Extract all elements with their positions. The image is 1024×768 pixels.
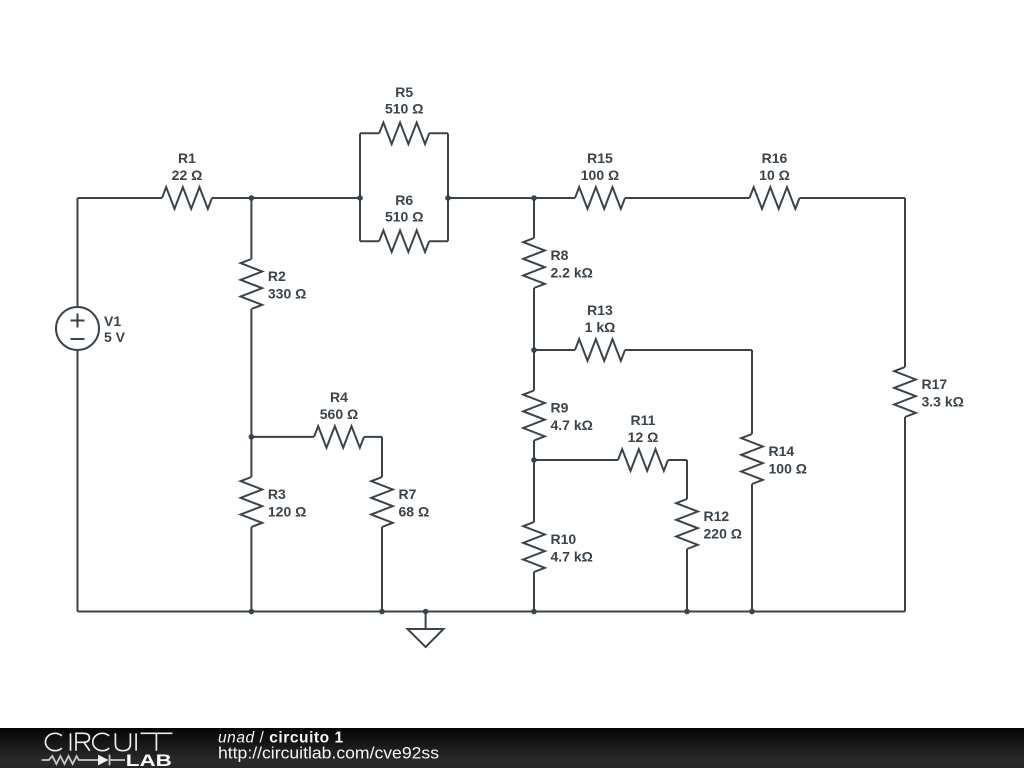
- node box right (448,198): [445, 195, 451, 201]
- svg-text:510 Ω: 510 Ω: [385, 100, 423, 116]
- wire R12 bottom lead: [686, 549, 688, 612]
- svg-text:220 Ω: 220 Ω: [704, 526, 742, 542]
- wire R2 top lead: [250, 198, 252, 259]
- wire right rail lower: [904, 417, 906, 612]
- wire R15 to R16: [625, 197, 750, 199]
- resistor R15: [575, 150, 625, 209]
- svg-text:10 Ω: 10 Ω: [759, 167, 790, 183]
- node bottom R12 (687,611): [684, 609, 690, 615]
- node bottom R3 (251,611): [249, 609, 255, 615]
- svg-text:R16: R16: [762, 150, 788, 166]
- svg-text:100 Ω: 100 Ω: [769, 461, 807, 477]
- node R4 left (251,437): [249, 434, 255, 440]
- resistor R5: [379, 84, 429, 144]
- svg-text:R14: R14: [769, 443, 795, 459]
- resistor R8: [523, 238, 593, 288]
- wire parallel box right vertical: [447, 133, 449, 241]
- wire R5 leads: [360, 132, 448, 134]
- wire R13 right to corner: [625, 349, 752, 351]
- wire mid column R8 lead top: [533, 198, 535, 238]
- node mid top (534,198): [531, 195, 537, 201]
- node A (251,198): [249, 195, 255, 201]
- wire parallel box left vertical: [359, 133, 361, 241]
- wire R16 to right corner: [800, 197, 906, 199]
- wire R11 right to corner: [668, 459, 687, 461]
- wire R3 top lead: [250, 437, 252, 477]
- svg-text:R12: R12: [704, 508, 730, 524]
- resistor R12: [676, 499, 742, 549]
- wire R7 bottom lead: [381, 527, 383, 612]
- svg-text:R17: R17: [922, 376, 948, 392]
- wire R1 to node A: [212, 197, 360, 199]
- svg-text:R8: R8: [551, 247, 569, 263]
- svg-text:68 Ω: 68 Ω: [399, 504, 430, 520]
- wire top rail left: [78, 197, 163, 199]
- svg-text:R5: R5: [395, 84, 413, 100]
- wire R7 top lead: [381, 437, 383, 477]
- svg-text:510 Ω: 510 Ω: [385, 208, 423, 224]
- wire R14 top lead: [751, 350, 753, 434]
- wire R4 left lead: [251, 436, 314, 438]
- node box left (360,198): [357, 195, 363, 201]
- svg-text:R4: R4: [330, 389, 348, 405]
- svg-text:100 Ω: 100 Ω: [581, 167, 619, 183]
- resistor R6: [379, 192, 429, 252]
- wire left rail below V1: [77, 350, 79, 612]
- wire left rail above V1: [77, 198, 79, 307]
- wire mid column R8 to R9: [533, 288, 535, 391]
- resistor R11: [618, 412, 668, 471]
- svg-text:R13: R13: [587, 302, 613, 318]
- ground: [408, 612, 444, 648]
- svg-text:R2: R2: [268, 268, 286, 284]
- wire R3 bottom lead: [250, 527, 252, 612]
- svg-text:12 Ω: 12 Ω: [628, 429, 659, 445]
- resistor R10: [523, 522, 593, 572]
- node bottom R14 (752,611): [749, 609, 755, 615]
- wire node B to R15: [448, 197, 575, 199]
- wire R13 left lead: [534, 349, 575, 351]
- svg-text:R7: R7: [399, 486, 417, 502]
- svg-text:120 Ω: 120 Ω: [268, 504, 306, 520]
- wire R2 bottom lead: [250, 309, 252, 437]
- svg-text:1 kΩ: 1 kΩ: [585, 319, 616, 335]
- wire mid column R10 to rail: [533, 572, 535, 612]
- node R13 left (534,350): [531, 347, 537, 353]
- resistor R14: [741, 434, 807, 484]
- resistor R16: [750, 150, 800, 209]
- resistor R13: [575, 302, 625, 361]
- svg-text:http://circuitlab.com/cve92ss: http://circuitlab.com/cve92ss: [218, 743, 439, 762]
- wire right rail upper: [904, 198, 906, 367]
- resistor R17: [894, 367, 964, 417]
- svg-text:560 Ω: 560 Ω: [320, 406, 358, 422]
- node bottom mid (534,611): [531, 609, 537, 615]
- logo resistor zigzag: [42, 756, 98, 764]
- voltage source V1: [56, 307, 99, 350]
- resistor R1: [162, 150, 212, 209]
- resistor R7: [371, 477, 429, 527]
- svg-text:R10: R10: [551, 531, 577, 547]
- svg-text:LAB: LAB: [126, 751, 172, 768]
- resistor R3: [241, 477, 307, 527]
- svg-text:3.3 kΩ: 3.3 kΩ: [922, 394, 964, 410]
- logo diode: [98, 755, 109, 766]
- svg-text:5 V: 5 V: [104, 329, 126, 345]
- node R11 left (534,460): [531, 457, 537, 463]
- footer bar: [0, 728, 1024, 768]
- svg-text:R15: R15: [587, 150, 613, 166]
- svg-text:330 Ω: 330 Ω: [268, 286, 306, 302]
- wire R14 bottom lead: [751, 484, 753, 612]
- logo CIRCUIT drawn letters: [45, 733, 172, 750]
- wire R6 leads: [360, 240, 448, 242]
- node bottom R7 (382,611): [379, 609, 385, 615]
- svg-text:R11: R11: [631, 412, 656, 428]
- svg-text:4.7 kΩ: 4.7 kΩ: [551, 417, 593, 433]
- resistor R2: [241, 259, 307, 309]
- wire mid column R9 to R10: [533, 441, 535, 523]
- svg-text:V1: V1: [104, 313, 121, 329]
- resistor R4: [314, 389, 364, 448]
- svg-text:2.2 kΩ: 2.2 kΩ: [551, 265, 593, 281]
- wire R4 right to corner: [364, 436, 382, 438]
- svg-text:R9: R9: [551, 400, 569, 416]
- svg-text:R6: R6: [395, 192, 413, 208]
- wire bottom rail: [78, 611, 906, 613]
- resistor R9: [523, 391, 593, 441]
- wire R11 left lead: [534, 459, 618, 461]
- svg-text:R3: R3: [268, 486, 286, 502]
- wire R12 top lead: [686, 460, 688, 499]
- svg-text:22 Ω: 22 Ω: [172, 167, 203, 183]
- svg-text:R1: R1: [178, 150, 196, 166]
- node bottom ground (425,611): [423, 609, 429, 615]
- svg-text:4.7 kΩ: 4.7 kΩ: [551, 549, 593, 565]
